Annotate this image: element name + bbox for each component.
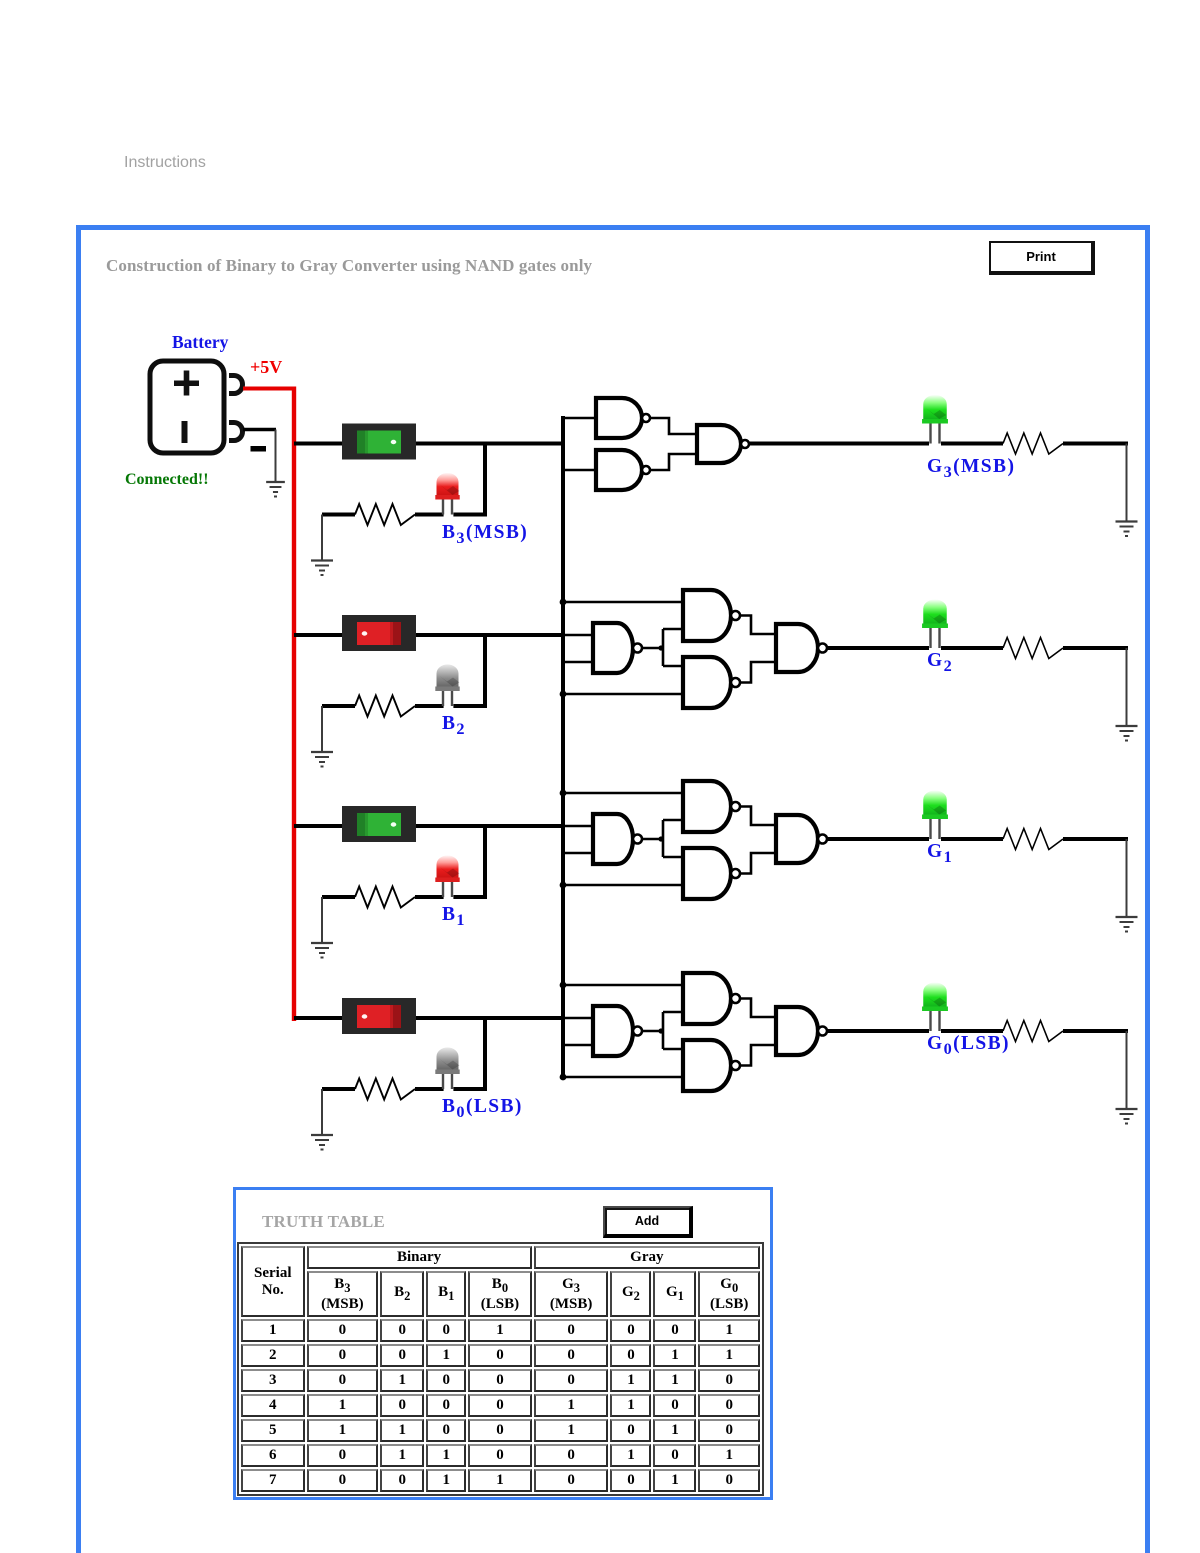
U4 input stubs [563,635,593,662]
NAND U10 [683,848,740,899]
NAND U9 [683,781,740,832]
resistor R6 [1003,829,1063,850]
switch S4 (off) [342,998,416,1034]
LED G0 (green) [922,983,948,1032]
ground out row4 [1116,1109,1138,1125]
battery cell bar [182,421,188,443]
wire U12 out fan [642,1012,664,1049]
U1 input stub [563,417,596,420]
resistor R8 [1003,1021,1063,1042]
ground battery [266,482,285,498]
wire row4 +5V bus to switch [294,1016,342,1020]
label +5V [250,357,282,378]
wire +5V from battery [243,387,296,391]
bus branch row2 top [560,599,567,606]
wire row1 resistor to ground [321,515,323,561]
resistor R7 [322,1079,415,1100]
wire battery minus [243,430,276,483]
bus branch row2 bottom [560,691,567,698]
U9 input stubs [563,793,683,820]
resistor R3 [322,696,415,717]
wire U1 out to U3 [651,418,698,434]
resistor R5 [322,887,415,908]
resistor R1 [322,504,415,525]
wire row2 resistor to ground [321,706,323,752]
battery terminal - [229,423,243,441]
node bus vertical B3/B2/B1 chain [561,416,565,1078]
wire U13 out to U15 [740,999,776,1018]
LED G3 (green) [922,395,948,444]
U13 input stubs [563,985,683,1012]
ground row1 input [311,561,333,577]
ground row4 input [311,1135,333,1151]
label G2 [927,650,953,676]
LED G2 (green) [922,600,948,649]
wire row3 LED branch [415,826,487,899]
ground out row1 [1116,522,1138,538]
label G3 [927,456,1015,482]
switch S2 (off) [342,615,416,651]
wire G3 output [750,442,930,446]
U2 input stub [563,469,596,472]
wire row3 switch to node bus [416,824,563,828]
U5 input stubs [563,602,683,629]
NAND U15 [776,1007,827,1055]
wire row4 switch to node bus [416,1016,563,1020]
NAND U14 [683,1040,740,1091]
battery terminal + [229,376,243,394]
wire out row1 resistor to corner [1063,444,1128,522]
wire G0 output [827,1029,929,1033]
wire U4 out fan [642,629,664,666]
wire out row3 LED to resistor [941,837,1003,841]
label Connected!! [125,471,209,489]
NAND U3 [697,425,749,463]
ground out row3 [1116,917,1138,933]
wire U5 out to U7 [740,616,776,635]
battery body [150,361,224,453]
NAND U11 [776,815,827,863]
bus branch row3 top [560,790,567,797]
applet outer panel [76,225,1150,1553]
label G1 [927,841,953,867]
ground out row2 [1116,726,1138,742]
wire row4 resistor to ground [321,1089,323,1135]
NAND U8 [593,814,642,864]
label Battery [172,332,228,353]
wire U8 out fan [642,820,664,857]
U12 input stubs [563,1018,593,1045]
wire out row4 LED to resistor [941,1029,1003,1033]
wire row2 switch to node bus [416,633,563,637]
wire row1 +5V bus to switch [294,442,342,446]
switch S1 (on) [342,424,416,460]
resistor R2 [1003,433,1063,454]
Print button [989,241,1095,275]
truth table panel [233,1187,773,1500]
TRUTH TABLE heading [262,1212,385,1232]
NAND U12 [593,1006,642,1056]
bus branch row3 bottom [560,882,567,889]
wire U9 out to U11 [740,807,776,826]
U10 input stubs [563,857,683,885]
switch S3 (on) [342,806,416,842]
wire row3 +5V bus to switch [294,824,342,828]
wire U10 out to U11 [740,853,776,874]
U6 input stubs [563,666,683,694]
NAND U2 [596,450,650,490]
ground row2 input [311,752,333,768]
LED B0 (gray) [435,1048,459,1090]
wire U14 out to U15 [740,1045,776,1066]
+5V red bus [292,387,296,1022]
NAND U7 [776,624,827,672]
label B2 [442,713,466,739]
wire U2 out to U3 [651,454,698,470]
wire out row3 resistor to corner [1063,839,1128,917]
label: Instructions link [124,154,206,172]
wire U6 out to U7 [740,662,776,683]
label G0 [927,1033,1010,1059]
Add button [603,1206,693,1238]
wire out row4 resistor to corner [1063,1031,1128,1109]
LED B3 (red) [435,473,459,515]
label B0 [442,1096,523,1122]
wire row3 resistor to ground [321,897,323,943]
NAND U4 [593,623,642,673]
wire out row2 resistor to corner [1063,648,1128,726]
battery plus mark [174,371,199,396]
battery minus bold mark [251,446,267,452]
U8 input stubs [563,826,593,853]
wire G1 output [827,837,929,841]
NAND U1 [596,398,650,438]
LED B1 (red) [435,856,459,898]
label B1 [442,904,466,930]
wire row4 LED branch [415,1018,487,1091]
title text [106,256,592,276]
NAND U5 [683,590,740,641]
wire G2 output [827,646,929,650]
ground row3 input [311,943,333,959]
wire row1 switch to node bus [416,442,563,446]
wire row2 +5V bus to switch [294,633,342,637]
bus branch row4 top [560,982,567,989]
label B3 [442,522,528,548]
wire row2 LED branch [415,635,487,708]
truth table [237,1242,764,1496]
wire out row1 LED to resistor [941,442,1003,446]
NAND U13 [683,973,740,1024]
wire out row2 LED to resistor [941,646,1003,650]
resistor R4 [1003,638,1063,659]
bus branch row4 bottom [560,1074,567,1081]
LED G1 (green) [922,791,948,840]
NAND U6 [683,657,740,708]
U14 input stubs [563,1049,683,1077]
LED B2 (gray) [435,665,459,707]
wire row1 LED branch [415,444,487,517]
